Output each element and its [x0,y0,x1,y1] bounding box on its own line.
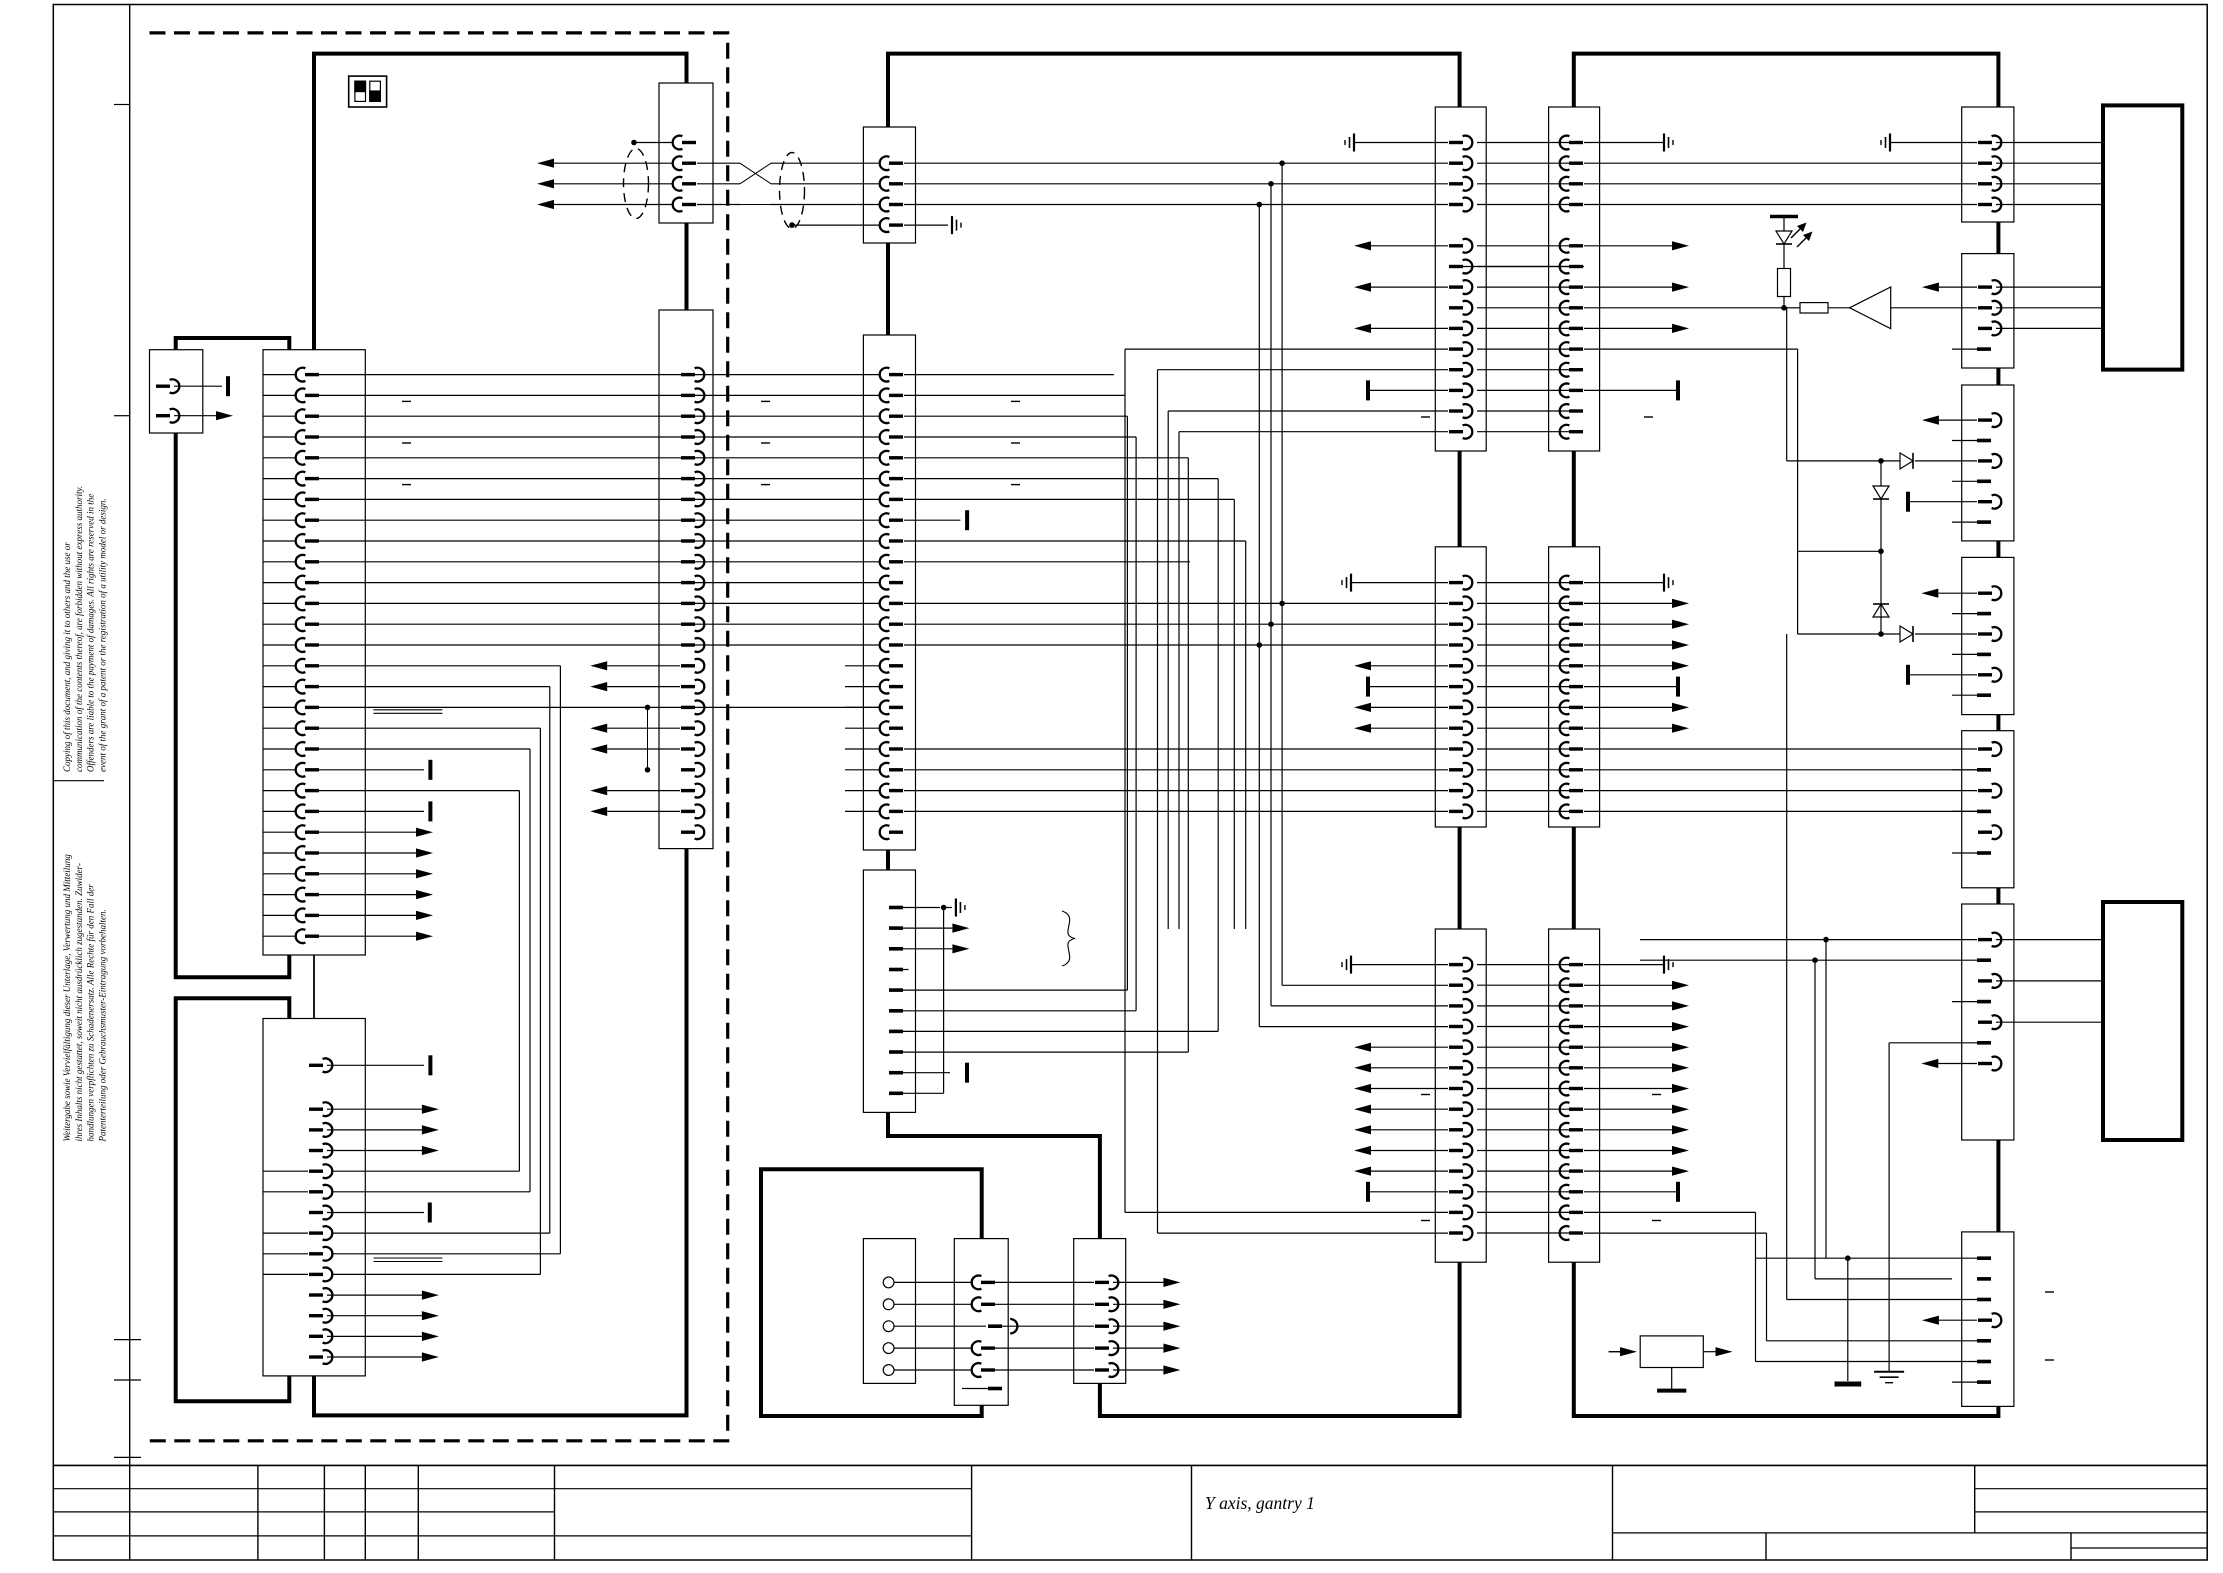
filter -T1 box [1640,1336,1703,1368]
copyright notice EN (rotated) [62,486,107,772]
wires -X22 onward to the right [903,375,1448,1053]
wires -X1 to -X22 rows 1-14 [263,375,1020,645]
device box -A2 (bottom right, thick) [2103,902,2182,1140]
cable label mark near X1 [374,710,443,714]
pins -X53 with arrow outputs [1095,1276,1180,1377]
pair1 T-bar row [1368,380,1678,400]
pair3 arrows, T-bars, right drops [1354,981,1977,1362]
connector -X51 (bottom group left) [863,1239,915,1384]
pair2 rows to right column seg5 [1584,749,1977,811]
connector -X61 (right column seg1) [1962,107,2014,222]
pins -X23 (10) [889,908,903,1094]
signal rows 2-4 across to right column [904,160,1977,207]
wires right column seg1 to -A1 [1996,143,2103,205]
diode V13 (to X63) [1881,453,1977,469]
connector -X22 (module B left, main) [863,335,915,850]
svg-text:Patenterteilung oder Gebrauchs: Patenterteilung oder Gebrauchsmuster-Ein… [97,909,107,1142]
cabinet dashed boundary [150,33,728,1441]
connector -X62 (right column seg2) [1962,254,2014,368]
X66 feed wires with taps [1640,937,1977,963]
module C outline [1574,54,1999,1416]
pins -X1 (28) [296,368,319,943]
pair1 row 287 arrow stub [1922,283,1977,292]
device box -A1 (top right, thick) [2103,105,2182,369]
wires pair1 rows to A1 [1996,287,2103,308]
diode V11 feed wires [1787,308,1884,554]
margin tick 5 [114,1379,141,1381]
pins -X52 and links [894,1275,1094,1376]
svg-text:Offenders are liable to the pa: Offenders are liable to the payment of d… [86,494,96,772]
diode V12 (vertical) [1873,604,1889,617]
riser to seg7 row3 [1787,634,1977,1300]
cable shield screen 2 [780,153,805,229]
connector -X0 (small, cabinet edge) [150,350,203,433]
X63 arrow stub [1922,416,1977,425]
connector -X66 (right column seg6) [1962,904,2014,1140]
svg-text:handlungen verpflichten zu Sch: handlungen verpflichten zu Schadenersatz… [86,884,96,1142]
connector -X2 (module A left, lower) [263,1019,365,1376]
connector -X21 (module B left, top) [863,127,915,243]
net PE top row with grounds [1345,134,1977,152]
connector -X63 (right column seg3) [1962,385,2014,541]
wire label dashes pair3 [1421,1095,1661,1221]
riser v1815 [1815,960,1952,1279]
pins -X66 [1952,933,2001,1071]
pins -X11.1-4 [673,136,696,212]
X63 T-bar row [1908,492,1977,512]
wire label dashes pair1 [1421,416,1653,418]
pins -X21.1-4 [880,156,903,232]
pins -X31 (14) [1449,136,1472,439]
svg-text:event of the grant of a patent: event of the grant of a patent or the re… [97,498,107,772]
connector -X11 (module A right, top) [659,83,713,223]
module A outline [314,54,687,1416]
filter -T1 output arrow [1703,1347,1732,1356]
shield termination bar [1835,1258,1862,1384]
left margin column line [129,5,131,1466]
X22 left stubs [845,666,880,812]
connector -X65 (right column seg5) [1962,731,2014,888]
module E outline [761,1169,982,1416]
buffer gate V1 [1828,287,1977,329]
pair2 ground row [1342,574,1673,592]
connector -X67 (right column seg7) [1962,1232,2014,1407]
wires -X11 outputs with arrows [537,159,673,210]
diode V14 (to X64) [1881,626,1977,642]
X67 stub row7 [1952,1381,1977,1383]
connector -X1 (module A left, upper) [263,350,365,955]
connector -X64 (right column seg4) [1962,557,2014,714]
pins -X22 (23) [880,368,903,839]
connector pair -X31/-X41 (upper) [1435,107,1599,451]
pins -X2 (14) [309,1058,332,1364]
wire X21 shield to ground [904,216,961,234]
svg-text:Weitergabe sowie Vervielfältig: Weitergabe sowie Vervielfältigung dieser… [62,854,72,1142]
margin tick 2 [114,415,130,417]
pins -X32 [1449,576,1472,819]
pins -X63 [1952,413,2001,522]
pins -X42 [1560,576,1583,819]
riser from pair1 row10 [1584,349,1798,551]
X12 link verticals [645,705,651,773]
diode bypass net [1798,551,1884,637]
X67 arrow stub [1922,1316,1977,1325]
connector -X12 (module A right, main) [659,310,713,849]
connector -X52 (bottom group middle) [954,1239,1008,1406]
pins -X51 (circles) [883,1277,894,1375]
svg-text:communication of the contents: communication of the contents thereof, a… [74,486,84,772]
connector pair -X33/-X43 (lower) [1435,929,1599,1262]
module B outline [888,54,1460,1416]
pins -X62 [1952,280,2001,349]
wire X11 row1 to shield [631,140,673,146]
staircase bundle SC1 [1125,349,1448,1233]
svg-text:Y axis, gantry 1: Y axis, gantry 1 [1205,1493,1315,1513]
X12 arrow stubs [590,661,680,816]
margin tick 4 [114,1339,141,1341]
margin tick 6 [114,1456,141,1458]
wires X11-X21 left part [697,163,740,204]
riser v1826 [1756,940,1978,1261]
title text Y axis gantry 1 [1205,1493,1315,1513]
X64 arrow stub [1921,589,1977,598]
X64 T-bar row [1908,665,1977,685]
pair1 row6 link [1452,266,1584,268]
wires -X1 rows 15-22 with vertical drops [263,666,880,1275]
pins -X43 [1560,958,1583,1240]
pair2 arrows and T-bars [1354,599,1689,733]
twisted pair crossover [740,163,771,204]
riser bundle RG1 [1257,163,1449,1026]
pins -X41 (14) [1560,136,1583,439]
pins -X64 [1952,586,2001,695]
copyright notice DE (rotated) [62,854,107,1143]
cable brace mark [1062,911,1075,966]
pins -X33 [1449,958,1472,1240]
DIP switch icon S1 [349,76,387,107]
wires X11-X21 right part [771,163,880,225]
pins -X0 and stubs [156,376,233,422]
title block grid [53,1465,2207,1560]
device R1 outline [176,338,290,977]
diode V11 (vertical) [1873,486,1889,499]
pins -X67 [1977,1258,2001,1382]
pair1 arrow rows [1354,241,1689,333]
connector -X53 (bottom group right) [1074,1239,1126,1384]
X62 row 328 wire [1996,327,2103,329]
X52 bottom dash pin [962,1387,1002,1391]
pair2 inner links [1477,603,1570,811]
resistor R10 [1784,303,1828,313]
device R2 outline [176,998,290,1401]
filter -T1 input arrow [1609,1347,1637,1356]
pair3 inner links [1477,985,1570,1233]
X2 left stubs [263,1171,308,1274]
margin tick 1 [114,104,130,106]
svg-text:Copying of this document, and: Copying of this document, and giving it … [62,542,72,772]
wires -X66 to -A2 [1996,940,2103,1023]
X2 stubs arrows and T-bars [327,1055,439,1361]
connector pair -X32/-X42 (middle) [1435,547,1599,827]
X2 cable label mark [374,1258,443,1262]
X23 local wires [903,899,969,1094]
margin tick 3 [53,780,104,782]
pins -X61 [1978,136,2001,212]
wire pair1 row8 to LED node [1584,269,1791,311]
X66 arrow stub [1921,1059,1977,1068]
filter -T1 ground leg [1657,1368,1686,1391]
pair1 inner links [1477,308,1570,432]
X67 label dashes [2045,1292,2054,1360]
cable shield screen 1 [624,149,649,219]
connector -X23 (module B left, lower) [863,870,915,1112]
pair3 ground row [1342,956,1673,974]
earth ground symbol [1874,1043,1952,1383]
svg-text:ihres Inhalts nicht gestattet,: ihres Inhalts nicht gestattet, soweit ni… [74,863,84,1141]
pins -X65 [1952,742,2001,853]
wires -X1 rows 23-28 arrow outputs [263,828,433,941]
LED -H1 [1770,217,1813,269]
pins -X12 (23) [681,368,704,839]
